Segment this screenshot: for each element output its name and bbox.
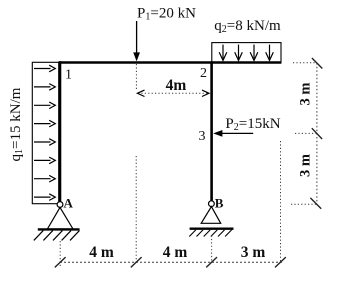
- distributed load q1 box (left column): [32, 62, 58, 203]
- q1 arrows: [34, 65, 55, 200]
- support B: hinge circle: [209, 201, 215, 207]
- bottom dim: leader below B: [211, 236, 213, 263]
- support A: hinge circle: [57, 202, 63, 208]
- svg-text:A: A: [64, 196, 74, 211]
- bottom dim: leader right end: [280, 141, 282, 262]
- right dim: tick middle: [312, 128, 322, 139]
- member: beam 1-2 with overhang: [59, 61, 282, 64]
- right dim: tick bottom: [310, 198, 321, 209]
- svg-text:3 m: 3 m: [241, 244, 266, 261]
- dim 4m leader below P1: [135, 64, 137, 90]
- right dim: leader at P2 level: [295, 132, 316, 134]
- support B: ground line: [190, 227, 234, 229]
- dim 4m arrowheads: [137, 90, 144, 96]
- svg-text:4 m: 4 m: [163, 244, 188, 261]
- support A: triangle: [47, 207, 73, 229]
- right dim: vertical line: [316, 63, 318, 204]
- right dim: leader at beam level: [293, 62, 316, 64]
- bottom dim: tick below P1: [131, 257, 142, 267]
- svg-text:P2=15kN: P2=15kN: [225, 116, 280, 133]
- force P1 arrow: [136, 21, 138, 54]
- bottom dim: leader below A: [59, 241, 61, 268]
- bottom dim: tick at B: [206, 257, 217, 267]
- distributed load q2 box (overhang): [212, 43, 281, 63]
- svg-text:4m: 4m: [166, 77, 187, 94]
- support A: ground line: [38, 228, 80, 230]
- dim 4m line: [138, 92, 209, 94]
- member: right column 2-B: [210, 61, 213, 201]
- q2 arrows: [219, 45, 273, 61]
- svg-text:3: 3: [199, 129, 206, 144]
- bottom dim: tick right end: [275, 257, 286, 267]
- support B: triangle: [201, 207, 221, 224]
- force P2 arrow: [221, 132, 253, 134]
- bottom dim: tick at A: [55, 257, 66, 267]
- support A: hatches: [34, 231, 80, 241]
- svg-text:3 m: 3 m: [298, 154, 314, 177]
- svg-text:B: B: [215, 195, 224, 210]
- svg-text:1: 1: [65, 68, 72, 83]
- right dim: leader at support level: [291, 203, 318, 205]
- right dim: tick top: [312, 58, 322, 69]
- member: left column 1-A: [59, 61, 62, 202]
- bottom dim: measure line: [60, 261, 282, 263]
- svg-text:2: 2: [200, 66, 207, 81]
- support B: hatches: [189, 230, 231, 237]
- bottom dim: leader below P1: [135, 156, 137, 262]
- svg-text:3 m: 3 m: [298, 83, 314, 106]
- svg-text:4 m: 4 m: [89, 244, 114, 261]
